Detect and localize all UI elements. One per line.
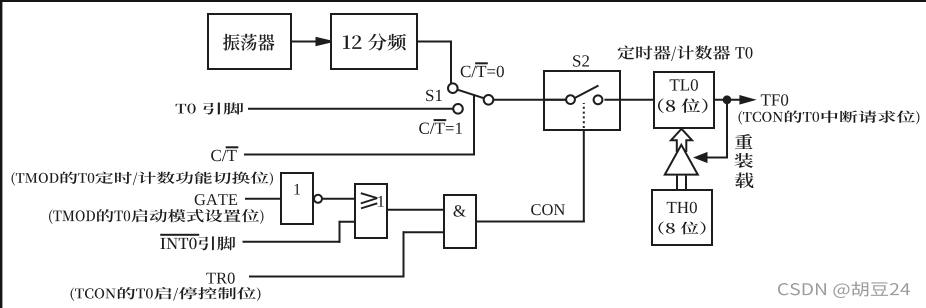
wire TL0 output to TF0 arrow (714, 99, 742, 101)
label 载 (reload char 3) (735, 172, 753, 188)
dotted control link inside S2 (583, 103, 585, 128)
arrowhead TF0 (740, 96, 753, 103)
label (8 位) in TL0 (658, 98, 707, 113)
label CON (531, 204, 565, 215)
wire C/T control vertical up to S1 arm (473, 95, 475, 156)
oscillator box (208, 14, 291, 69)
label (TMOD的T0定时/计数功能切换位) (12, 171, 274, 185)
NOT gate box (281, 173, 313, 224)
wire INT0 into OR gate (339, 221, 356, 223)
NOT gate inversion bubble (314, 195, 322, 203)
AND gate box (444, 195, 476, 248)
label 12 分频 (divide by 12) (343, 34, 406, 51)
label S2 (573, 55, 589, 66)
top border bar (0, 0, 926, 2)
label (8 位) in TH0 (658, 222, 705, 235)
wire divider output horizontal (417, 41, 452, 43)
wire TR0 vertical jog (403, 231, 405, 277)
switch S2 left contact (566, 95, 575, 104)
register TL0 box (654, 72, 714, 128)
wire NOT gate output to OR gate (323, 198, 355, 200)
overline over INT0 (160, 234, 199, 236)
label C/T=1 (419, 123, 462, 135)
label & in AND gate (453, 205, 465, 217)
wire reload vertical from junction (726, 100, 728, 159)
wire reload horizontal (706, 157, 728, 159)
switch S1 upper contact (C/T=0) (448, 83, 458, 93)
wire GATE to NOT gate input (245, 198, 281, 200)
label T0 引脚 (176, 102, 244, 114)
label 1 in NOT gate (294, 184, 300, 195)
wire TR0 into AND gate (403, 231, 445, 233)
wire T0 pin to S1 lower contact (248, 108, 456, 110)
register TH0 box (652, 190, 712, 245)
switch S2 box (544, 71, 620, 130)
wire oscillator to divider (291, 41, 321, 43)
label 定时器/计数器 T0 (618, 46, 753, 61)
hollow arrow into TL0 bottom (671, 129, 692, 151)
label (TMOD的T0启动模式设置位) (49, 209, 263, 224)
label 振荡器 (oscillator) (223, 34, 274, 51)
label (TCON的T0启/停控制位) (71, 287, 261, 301)
wire CON from AND gate output (476, 221, 585, 223)
left border bar (0, 0, 2, 308)
wire S2 right contact to TL0 (604, 99, 654, 101)
label (TCON的T0中断请求位) (739, 111, 920, 125)
switch S2 arm (571, 86, 598, 100)
label C/T=0 (461, 66, 504, 78)
wire TR0 horizontal (249, 276, 405, 278)
wire INT0 pin horizontal (243, 241, 341, 243)
switch S1 lower contact (C/T=1) (453, 104, 463, 114)
label GATE (195, 194, 238, 205)
label INT0 引脚 (160, 236, 235, 250)
arrowhead reload into triangle (696, 153, 707, 161)
junction dot on TF0 wire (724, 96, 731, 103)
arrowhead into divider box (317, 38, 332, 45)
overline on T of C/T=0 (475, 62, 488, 64)
switch S1 arm (453, 88, 489, 100)
wire CON vertical up to S2 (583, 129, 585, 223)
wire divider output vertical down to S1 (450, 41, 452, 85)
label 重 (reload char 1) (735, 134, 753, 149)
wire OR gate output to AND gate (387, 209, 444, 211)
wire INT0 vertical jog (339, 221, 341, 243)
label TL0 (670, 79, 698, 91)
label S1 (426, 90, 442, 102)
reload triangle (white) (665, 145, 698, 175)
label >=1 in OR gate (361, 193, 378, 208)
label TH0 (667, 202, 697, 214)
reload shaft left line (676, 176, 678, 191)
reload shaft right line (685, 176, 687, 191)
wire S1 common to S2 left contact (489, 99, 568, 101)
wire into S2 left contact (544, 99, 567, 101)
overline on T of C/T (226, 146, 239, 148)
watermark CSDN @胡豆24 (778, 282, 910, 299)
label 装 (reload char 2) (735, 153, 753, 168)
switch S2 right contact (594, 95, 603, 104)
wire C/T control horizontal (244, 154, 474, 156)
label TF0 (761, 94, 788, 106)
overline on T of C/T=1 (434, 119, 447, 121)
OR gate box (355, 184, 387, 238)
switch S1 common contact (484, 95, 494, 105)
divide-by-12 box (331, 14, 417, 69)
label 1 of >=1 (378, 196, 384, 207)
label TR0 (206, 273, 234, 284)
label C/T (211, 150, 237, 162)
